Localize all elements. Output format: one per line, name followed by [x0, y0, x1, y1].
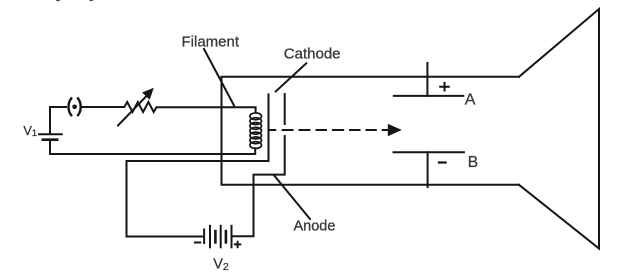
- svg-text:Anode: Anode: [294, 219, 336, 235]
- svg-text:V2: V2: [213, 257, 229, 274]
- svg-text:B: B: [468, 154, 478, 171]
- svg-text:A: A: [465, 91, 476, 108]
- svg-text:Filament: Filament: [182, 33, 240, 50]
- svg-text:V1: V1: [23, 123, 37, 138]
- svg-text:Cathode: Cathode: [284, 46, 341, 63]
